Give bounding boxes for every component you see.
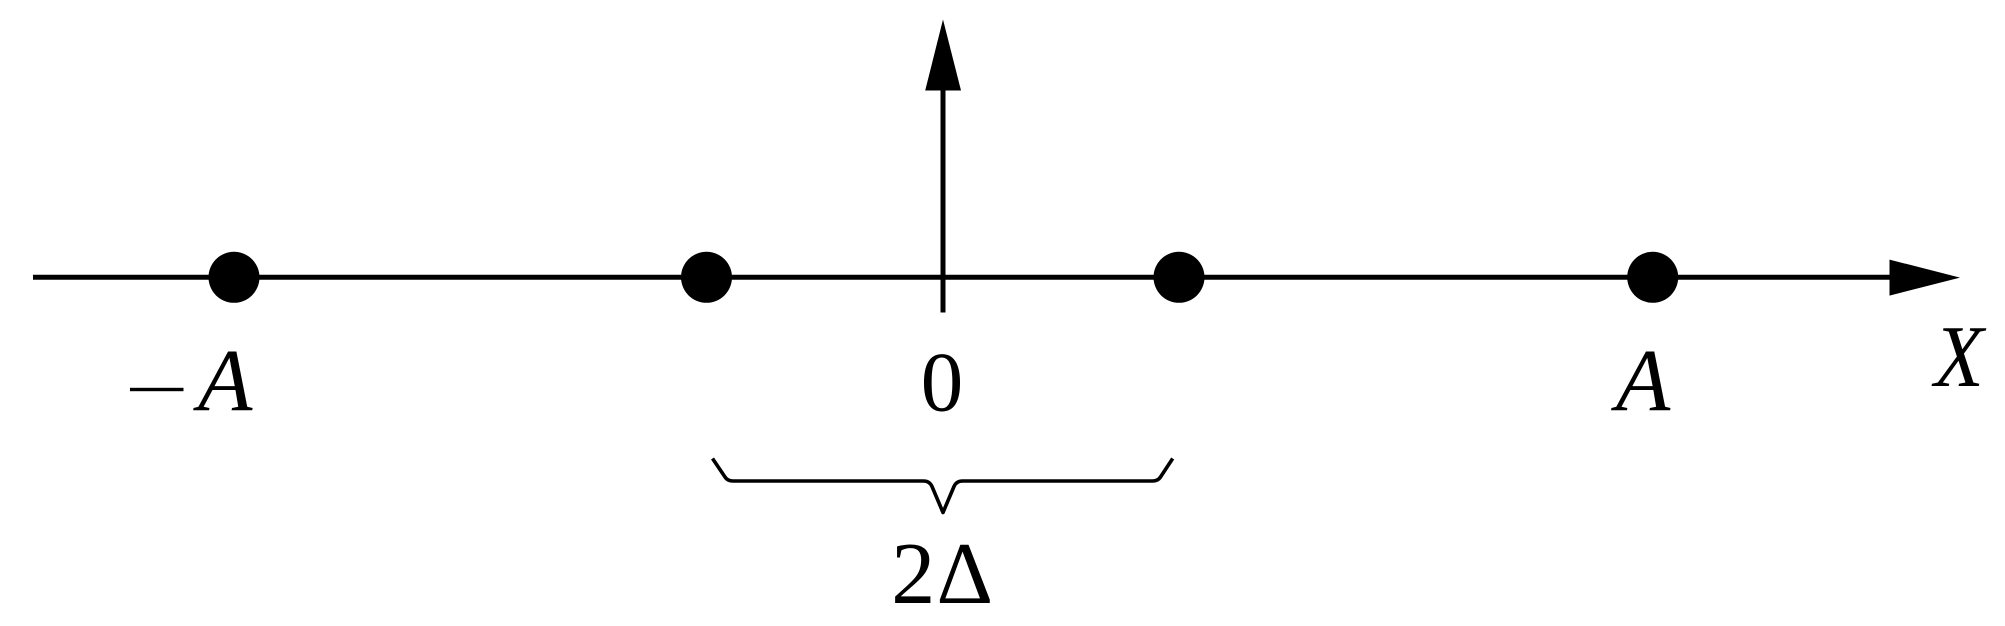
svg-text:2: 2 — [891, 526, 935, 623]
dot at A — [1627, 252, 1678, 303]
x-axis line — [33, 275, 1893, 280]
x-axis arrowhead — [1890, 260, 1961, 296]
underbrace 2-delta span — [713, 459, 1173, 513]
y-axis line — [941, 86, 946, 313]
svg-text:A: A — [193, 332, 253, 430]
svg-text:X: X — [1931, 309, 1987, 406]
svg-text:Δ: Δ — [937, 526, 994, 623]
svg-text:0: 0 — [921, 336, 964, 430]
dot at -Delta — [681, 252, 732, 303]
svg-text:A: A — [1611, 332, 1671, 430]
minus sign of -A label — [130, 388, 184, 391]
dot at -A — [209, 252, 260, 303]
y-axis arrowhead — [925, 20, 961, 91]
dot at +Delta — [1154, 252, 1205, 303]
